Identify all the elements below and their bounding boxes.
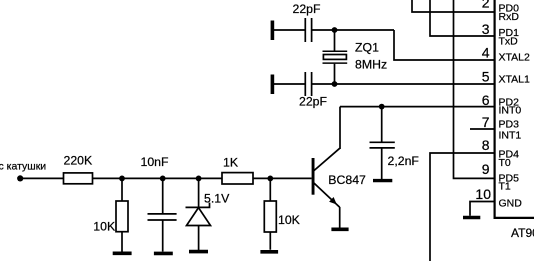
svg-text:RxD: RxD xyxy=(499,11,520,23)
svg-text:XTAL1: XTAL1 xyxy=(499,73,530,85)
svg-text:ZQ1: ZQ1 xyxy=(355,41,379,55)
svg-text:8MHz: 8MHz xyxy=(355,58,387,72)
svg-text:3: 3 xyxy=(482,21,490,37)
svg-text:XTAL2: XTAL2 xyxy=(499,51,530,63)
svg-text:7: 7 xyxy=(482,114,490,130)
svg-text:220K: 220K xyxy=(64,154,94,168)
svg-text:AT90S2313: AT90S2313 xyxy=(511,226,534,240)
svg-text:5.1V: 5.1V xyxy=(204,191,230,205)
svg-text:4: 4 xyxy=(482,45,490,61)
svg-text:с катушки: с катушки xyxy=(0,160,46,172)
svg-text:INT1: INT1 xyxy=(499,130,522,142)
svg-text:10K: 10K xyxy=(278,213,301,227)
svg-text:10: 10 xyxy=(475,186,491,202)
svg-text:GND: GND xyxy=(499,198,523,210)
svg-text:BC847: BC847 xyxy=(328,173,366,187)
svg-text:INT0: INT0 xyxy=(499,104,522,116)
svg-text:T0: T0 xyxy=(499,157,511,169)
svg-text:10K: 10K xyxy=(93,220,116,234)
svg-text:9: 9 xyxy=(482,161,490,177)
svg-text:22pF: 22pF xyxy=(299,94,328,108)
svg-text:8: 8 xyxy=(482,137,490,153)
svg-text:2: 2 xyxy=(482,0,490,11)
svg-text:T1: T1 xyxy=(499,181,511,193)
svg-text:PD3: PD3 xyxy=(499,118,520,130)
svg-text:TxD: TxD xyxy=(499,35,519,47)
svg-text:2,2nF: 2,2nF xyxy=(388,154,420,168)
svg-text:1K: 1K xyxy=(223,156,239,170)
svg-text:10nF: 10nF xyxy=(141,155,170,169)
svg-text:22pF: 22pF xyxy=(293,2,322,16)
svg-text:6: 6 xyxy=(482,92,490,108)
svg-text:5: 5 xyxy=(482,69,490,85)
